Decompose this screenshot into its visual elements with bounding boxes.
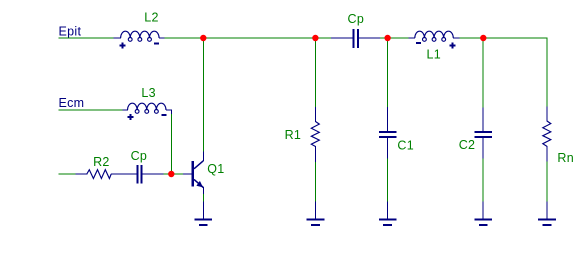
junction dot bbox=[480, 35, 486, 41]
inductor L3 bbox=[123, 103, 172, 115]
ground (under Rn) bbox=[538, 202, 556, 226]
wire bbox=[59, 37, 115, 39]
ground (under Q1) bbox=[195, 202, 213, 226]
wire bbox=[59, 109, 124, 111]
L2 minus sign bbox=[154, 42, 159, 44]
wire bbox=[460, 37, 548, 39]
junction dot bbox=[200, 35, 206, 41]
svg-text:C1: C1 bbox=[397, 139, 414, 153]
wire bbox=[380, 37, 409, 39]
svg-text:Q1: Q1 bbox=[207, 162, 224, 176]
wire bbox=[164, 173, 183, 175]
wire bbox=[202, 194, 204, 202]
capacitor Cp (bottom) bbox=[115, 165, 164, 184]
junction dot bbox=[384, 35, 390, 41]
svg-text:Rn: Rn bbox=[557, 151, 574, 165]
capacitor C2 bbox=[474, 108, 492, 159]
wire bbox=[546, 162, 548, 202]
wire bbox=[59, 173, 76, 175]
wire bbox=[482, 158, 484, 201]
transistor Q1 bbox=[183, 152, 203, 195]
svg-text:C2: C2 bbox=[459, 138, 476, 152]
ground (under R1) bbox=[307, 202, 325, 226]
L3 plus sign bbox=[128, 114, 134, 120]
svg-text:L3: L3 bbox=[141, 86, 156, 100]
svg-text:Epit: Epit bbox=[59, 24, 82, 38]
svg-text:Cp: Cp bbox=[131, 149, 148, 163]
wire bbox=[165, 37, 331, 39]
capacitor Cp (top) bbox=[331, 29, 380, 48]
ground (under C2) bbox=[474, 202, 492, 226]
svg-text:Ecm: Ecm bbox=[59, 96, 85, 110]
L1 plus sign bbox=[449, 42, 455, 48]
svg-text:R2: R2 bbox=[93, 155, 110, 169]
svg-text:L1: L1 bbox=[427, 48, 442, 62]
L1 minus sign bbox=[416, 42, 421, 44]
svg-text:R1: R1 bbox=[285, 128, 302, 142]
svg-text:Cp: Cp bbox=[348, 12, 365, 26]
wire bbox=[315, 38, 317, 107]
wire bbox=[387, 158, 389, 201]
junction dot bbox=[168, 171, 174, 177]
svg-text:L2: L2 bbox=[144, 11, 159, 25]
wire bbox=[170, 114, 172, 174]
wire bbox=[315, 162, 317, 202]
wire bbox=[546, 38, 548, 106]
resistor Rn bbox=[543, 106, 551, 161]
L3 minus sign bbox=[161, 114, 166, 116]
capacitor C1 bbox=[379, 107, 397, 158]
wire bbox=[202, 38, 204, 152]
wire bbox=[387, 38, 389, 107]
resistor R1 bbox=[311, 107, 319, 162]
L2 plus sign bbox=[120, 43, 126, 49]
ground (under C1) bbox=[379, 202, 397, 226]
resistor R2 bbox=[75, 170, 124, 179]
inductor L2 bbox=[114, 31, 166, 41]
junction dot bbox=[312, 35, 318, 41]
inductor L1 bbox=[409, 31, 460, 41]
wire bbox=[482, 38, 484, 108]
